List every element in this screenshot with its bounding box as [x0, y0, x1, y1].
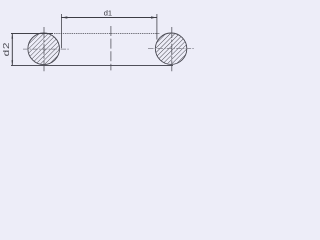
svg-text:d1: d1 — [104, 9, 112, 18]
O-ring cross-section left: outline circle — [28, 33, 60, 65]
dashed inner tangent line between sections — [54, 33, 160, 35]
O-ring cross-section right: hatching — [156, 33, 187, 64]
horizontal centerline left circle — [23, 48, 70, 50]
vertical centerline left circle — [43, 27, 45, 71]
ring axis centerline (vertical, middle) — [110, 26, 112, 70]
d2 arrowhead bottom — [12, 60, 14, 65]
d1 arrowhead left — [62, 16, 68, 18]
vertical centerline right circle — [171, 27, 173, 71]
d2 extension line top — [11, 33, 53, 35]
horizontal centerline right circle — [148, 47, 195, 49]
O-ring cross-section left: hatching — [28, 33, 59, 64]
svg-text:d2: d2 — [2, 42, 11, 57]
d1 arrowhead right — [151, 16, 157, 18]
d1 extension line left — [60, 14, 62, 48]
d1 dimension line — [61, 17, 156, 19]
d1 extension line right — [156, 14, 158, 40]
O-ring cross-section right: outline circle — [155, 33, 186, 64]
background — [0, 0, 200, 80]
d2 arrowhead top — [12, 34, 14, 39]
d2 dimension line — [11, 33, 13, 65]
bottom tangent line — [11, 65, 173, 67]
